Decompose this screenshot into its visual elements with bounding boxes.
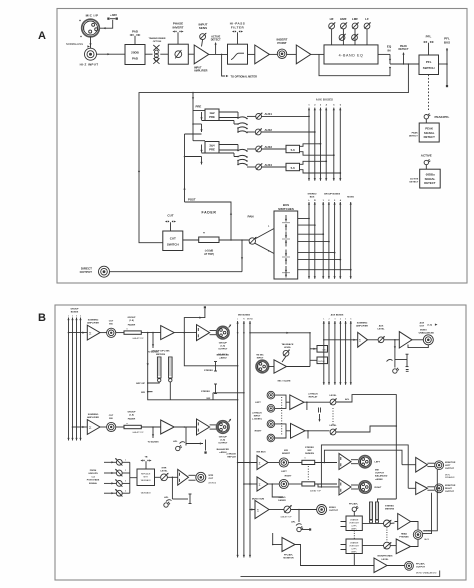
svg-text:AMPLIFIER: AMPLIFIER <box>87 322 99 325</box>
svg-text:AFL: AFL <box>164 496 169 499</box>
svg-text:AMPLIFIER: AMPLIFIER <box>87 416 99 419</box>
monitor pot 4 <box>104 492 116 494</box>
svg-text:GROUP O/P | MIX: GROUP O/P | MIX <box>151 351 170 353</box>
4-band EQ box <box>324 45 378 64</box>
svg-text:FADER: FADER <box>278 499 286 502</box>
headphone level pots <box>362 522 383 524</box>
svg-text:LEFT: LEFT <box>445 465 451 467</box>
svg-text:(1-6): (1-6) <box>428 325 433 327</box>
mono row <box>249 509 251 511</box>
svg-text:(MONO): (MONO) <box>209 483 217 485</box>
peak/pfl LED <box>424 114 430 119</box>
svg-text:OSC: OSC <box>322 349 327 351</box>
svg-text:TALKBACK: TALKBACK <box>141 492 152 495</box>
B: TB mic / oscillator <box>250 332 310 334</box>
5-6 box a <box>286 145 300 152</box>
svg-text:Σ: Σ <box>259 483 261 487</box>
to optional meter <box>222 54 225 76</box>
mtr out jack <box>196 472 206 482</box>
svg-text:MIC / SLATE: MIC / SLATE <box>278 379 291 382</box>
svg-text:1K/10K: 1K/10K <box>318 361 325 363</box>
svg-text:INVERT: INVERT <box>172 25 183 29</box>
L/R to mono link <box>271 483 273 485</box>
pre/post switches 1&2 <box>201 112 203 132</box>
svg-text:AUX BUSES: AUX BUSES <box>331 314 344 317</box>
svg-text:TRANSFORMER: TRANSFORMER <box>148 37 165 40</box>
svg-text:FADERS: FADERS <box>305 452 314 455</box>
5-6 box b <box>286 163 300 170</box>
svg-text:2-TRACK: 2-TRACK <box>226 452 236 455</box>
svg-text:NORMALLING: NORMALLING <box>66 42 83 46</box>
svg-text:MIX: MIX <box>375 470 379 472</box>
svg-text:AT TOP): AT TOP) <box>204 253 214 256</box>
aux output jack <box>423 335 433 345</box>
svg-text:DETECT: DETECT <box>424 135 435 139</box>
svg-text:SW.: SW. <box>109 418 113 420</box>
svg-text:SENS: SENS <box>199 26 207 30</box>
svg-text:MON/PHONES: MON/PHONES <box>378 556 393 558</box>
B: 2-track / monitor select area <box>330 398 337 405</box>
mic XLR connector <box>79 19 99 37</box>
svg-text:GROUP BUSES: GROUP BUSES <box>324 194 341 196</box>
svg-text:INSERT: INSERT <box>282 453 291 455</box>
svg-text:DETECT: DETECT <box>409 136 418 138</box>
svg-text:∞: ∞ <box>203 231 205 235</box>
hi-pass filter box <box>228 44 248 64</box>
headphone amps <box>398 514 411 530</box>
svg-text:+48V: +48V <box>110 13 117 17</box>
svg-text:AMPL: AMPL <box>351 527 357 530</box>
group XLR 1 <box>217 326 230 339</box>
summing amp 1 <box>87 325 100 340</box>
svg-text:OUT: OUT <box>420 326 425 328</box>
input amplifier <box>194 45 209 64</box>
svg-text:LEFT: LEFT <box>255 402 261 404</box>
peak signal detect box <box>419 123 439 142</box>
svg-text:MONITOR: MONITOR <box>445 462 456 464</box>
svg-text:BUS: BUS <box>310 197 315 199</box>
svg-text:RIGHT: RIGHT <box>375 487 382 489</box>
mono AFL <box>298 509 300 511</box>
svg-text:Σ: Σ <box>359 339 361 343</box>
EQ pots row2 <box>339 34 346 41</box>
svg-text:(1-8): (1-8) <box>129 414 134 416</box>
svg-text:5-6: 5-6 <box>291 148 295 152</box>
aux AFL cluster <box>394 340 396 368</box>
svg-text:LEFT: LEFT <box>281 471 287 473</box>
svg-text:0dB AT TOP: 0dB AT TOP <box>310 489 322 492</box>
svg-text:2-TRACK: 2-TRACK <box>252 411 262 414</box>
svg-text:FADER: FADER <box>202 211 217 215</box>
svg-text:PAD: PAD <box>132 57 139 61</box>
monitor to phones loop <box>423 470 438 531</box>
svg-text:OUTPUT: OUTPUT <box>329 510 339 512</box>
svg-text:AFL: AFL <box>291 521 296 524</box>
svg-text:REPLACE: REPLACE <box>141 472 151 475</box>
svg-text:TO OPTIONAL METER: TO OPTIONAL METER <box>231 75 258 78</box>
svg-text:HF: HF <box>330 17 334 21</box>
svg-text:IN: IN <box>388 48 391 52</box>
svg-text:(1-8): (1-8) <box>220 440 225 442</box>
svg-text:OVER DET: OVER DET <box>349 545 360 547</box>
to auxes 1 <box>152 333 154 348</box>
svg-text:AUX: AUX <box>420 322 425 325</box>
svg-text:AFL: AFL <box>173 440 178 443</box>
svg-text:GROUP: GROUP <box>127 317 136 319</box>
svg-text:4-BAND EQ: 4-BAND EQ <box>339 53 364 57</box>
svg-text:AFL: AFL <box>345 398 350 401</box>
amplifier 2 <box>255 45 270 64</box>
svg-text:MIX: MIX <box>308 450 312 452</box>
svg-text:GROUPS: GROUPS <box>88 473 98 475</box>
output amp row1 (double) <box>197 325 210 341</box>
svg-text:OUTPUT: OUTPUT <box>218 443 228 445</box>
2tk select dashes <box>281 397 283 436</box>
svg-text:AUX BUSES: AUX BUSES <box>316 99 333 102</box>
svg-text:OUTPUT: OUTPUT <box>416 567 426 569</box>
monitor pot 1 <box>104 461 116 463</box>
wire amp to HPF with meter tap <box>209 53 228 55</box>
svg-text:STEREO: STEREO <box>201 391 210 393</box>
svg-text:AUX2: AUX2 <box>265 128 273 132</box>
svg-text:MTR: MTR <box>162 468 167 470</box>
svg-text:AUX4: AUX4 <box>265 163 273 167</box>
svg-text:A: A <box>38 30 46 42</box>
aux3 pot <box>256 145 263 152</box>
svg-text:MONO: MONO <box>347 197 354 199</box>
svg-text:OUTPUT: OUTPUT <box>445 491 455 493</box>
direct output <box>241 240 243 272</box>
svg-text:+4DBM: +4DBM <box>375 478 383 481</box>
svg-text:OUTPUT: OUTPUT <box>375 473 385 475</box>
panel A border <box>57 9 467 284</box>
svg-text:PFL: PFL <box>426 35 432 39</box>
svg-text:GRP O/P: GRP O/P <box>136 383 146 385</box>
svg-text:OUTPUT: OUTPUT <box>80 270 93 274</box>
monitor select risers <box>324 462 326 464</box>
svg-text:HMF: HMF <box>340 17 347 21</box>
svg-text:MONO: MONO <box>247 319 254 321</box>
pan split to bus switches <box>255 229 274 240</box>
svg-text:MONITOR: MONITOR <box>445 485 456 487</box>
svg-text:MIX: MIX <box>207 398 211 400</box>
svg-text:GROUP: GROUP <box>219 342 228 344</box>
svg-text:STEREO: STEREO <box>308 194 317 196</box>
svg-text:(1-8): (1-8) <box>220 345 225 347</box>
svg-text:SUMMING: SUMMING <box>88 414 99 416</box>
svg-text:TB MIC: TB MIC <box>256 354 264 356</box>
svg-text:SIGNAL: SIGNAL <box>89 482 98 485</box>
stereo routing feed row1 <box>184 309 205 333</box>
svg-text:UNBALANCED: UNBALANCED <box>419 331 435 334</box>
monitor pot 2 <box>104 472 116 474</box>
svg-text:CUT: CUT <box>109 415 114 417</box>
svg-text:SWITCH: SWITCH <box>167 242 179 246</box>
3&4 pre box <box>193 140 205 142</box>
replace/talkback box <box>137 469 155 486</box>
svg-text:(-10DBV): (-10DBV) <box>252 418 262 420</box>
mix sum R <box>243 483 245 485</box>
svg-text:HEAD: HEAD <box>401 533 408 536</box>
svg-text:MIX BUSES: MIX BUSES <box>238 315 251 317</box>
svg-text:LMF: LMF <box>352 17 358 21</box>
svg-text:PHONES: PHONES <box>399 537 409 539</box>
svg-text:PRE: PRE <box>209 115 215 119</box>
svg-text:PAN: PAN <box>247 215 253 219</box>
svg-text:OUTPUT: OUTPUT <box>218 348 228 350</box>
svg-text:PRE: PRE <box>209 147 215 151</box>
svg-text:SUMMING: SUMMING <box>88 320 99 322</box>
svg-text:AMPLIFIER: AMPLIFIER <box>356 325 368 328</box>
svg-text:LEVEL: LEVEL <box>381 559 389 561</box>
svg-text:POST-FADE: POST-FADE <box>87 479 100 482</box>
svg-text:MIX: MIX <box>284 450 288 452</box>
B: group row 2 <box>72 426 74 428</box>
aux4 pot <box>256 163 263 170</box>
wire pad to transformer <box>145 53 153 55</box>
svg-text:PFL/AFL: PFL/AFL <box>349 503 359 506</box>
svg-text:OUT: OUT <box>209 478 214 480</box>
svg-text:SWITCH: SWITCH <box>423 66 435 70</box>
svg-text:PRE: PRE <box>196 105 202 109</box>
svg-text:5-6: 5-6 <box>291 166 295 170</box>
svg-text:CHANGE: CHANGE <box>350 541 359 544</box>
svg-text:METERS: METERS <box>156 354 166 356</box>
svg-text:GROUP: GROUP <box>70 309 79 311</box>
svg-text:BUSES: BUSES <box>71 312 79 314</box>
svg-text:RIGHT: RIGHT <box>285 475 292 477</box>
svg-text:MIC I/P: MIC I/P <box>86 14 99 18</box>
svg-text:TO AUXES: TO AUXES <box>147 441 159 444</box>
B: aux master row <box>323 339 325 341</box>
1&2 pre box <box>193 110 205 112</box>
wire +48V to XLR <box>100 20 113 28</box>
svg-text:BALANCED: BALANCED <box>375 475 388 478</box>
stereo labeled feeds to mix bus <box>184 333 237 366</box>
svg-text:MONO SUM: MONO SUM <box>252 498 264 500</box>
svg-text:TALKBACK: TALKBACK <box>141 479 152 482</box>
svg-text:MONO: MONO <box>329 507 336 509</box>
svg-text:TB: TB <box>145 457 148 459</box>
svg-text:AUX3: AUX3 <box>265 145 273 149</box>
B: mix master outputs <box>339 454 351 470</box>
svg-text:MONO: MONO <box>279 497 286 499</box>
svg-text:SWITCHES: SWITCHES <box>278 207 294 211</box>
2tk amp outputs to level pots <box>304 401 330 403</box>
amplifier 3 <box>296 45 311 64</box>
wire to EQ + bypass loop <box>311 53 324 55</box>
svg-text:PFL: PFL <box>426 60 432 64</box>
phones jack <box>413 530 422 539</box>
svg-text:PFL/AFL: PFL/AFL <box>284 553 294 556</box>
svg-text:& PFL: & PFL <box>351 525 357 527</box>
TB distribution line <box>241 571 440 577</box>
PFL output jack <box>405 561 414 570</box>
svg-text:GROUP: GROUP <box>127 411 136 413</box>
20dB pad box <box>125 45 145 65</box>
svg-text:OVER DET: OVER DET <box>349 522 360 524</box>
wire jack to pad <box>97 53 126 55</box>
svg-text:2-TRACK: 2-TRACK <box>308 393 318 396</box>
svg-text:INPUT: INPUT <box>254 415 261 417</box>
aux1 pot <box>256 113 263 120</box>
phase invert box <box>168 44 188 64</box>
mix sum L <box>237 462 239 464</box>
svg-text:20DB: 20DB <box>131 51 140 55</box>
svg-text:B: B <box>38 312 46 324</box>
post line <box>185 202 232 240</box>
svg-text:LEVEL: LEVEL <box>160 471 168 473</box>
hi-z input jack <box>85 48 97 60</box>
post vertical <box>184 134 186 202</box>
2tk to mix switches <box>307 402 308 438</box>
svg-text:REPLAY: REPLAY <box>227 455 236 458</box>
stereo meter bars <box>369 502 372 523</box>
B: PFL/AFL monitor bottom <box>282 538 295 552</box>
svg-text:POINT: POINT <box>277 41 286 45</box>
svg-text:RIGHT: RIGHT <box>445 488 452 490</box>
svg-text:STEREO: STEREO <box>424 531 433 533</box>
svg-text:STEREO: STEREO <box>385 506 394 508</box>
group XLR 2 <box>217 421 230 434</box>
svg-text:ACTIVE: ACTIVE <box>421 154 432 158</box>
svg-text:LEVEL: LEVEL <box>377 329 385 331</box>
svg-text:CUT: CUT <box>109 321 114 323</box>
monitor pot 3 <box>104 482 116 484</box>
svg-text:FROM: FROM <box>90 470 97 472</box>
svg-text:HI-Z INPUT: HI-Z INPUT <box>80 63 99 67</box>
bus switch output lines <box>298 219 351 270</box>
dashed line PFL switch to LED <box>428 75 430 111</box>
svg-text:MTR: MTR <box>144 477 149 479</box>
svg-text:BALANCED: BALANCED <box>217 448 230 451</box>
svg-text:DETECT: DETECT <box>399 48 409 51</box>
svg-text:0dB AT TOP: 0dB AT TOP <box>133 337 145 340</box>
svg-text:RIGHT: RIGHT <box>255 431 262 433</box>
svg-text:MONITOR: MONITOR <box>283 558 294 560</box>
svg-text:CUT: CUT <box>170 236 176 240</box>
svg-text:LEVEL: LEVEL <box>329 395 337 397</box>
svg-text:LF: LF <box>365 17 369 21</box>
svg-text:MTR: MTR <box>209 475 214 477</box>
svg-text:GROUP: GROUP <box>219 437 228 439</box>
svg-text:LEFT: LEFT <box>375 462 381 464</box>
2tk amps <box>290 395 304 410</box>
svg-text:DETECT: DETECT <box>211 39 221 42</box>
collector <box>130 462 137 493</box>
svg-text:STEREO: STEREO <box>204 370 213 372</box>
svg-text:MONO UNBALANCED: MONO UNBALANCED <box>416 572 437 575</box>
svg-text:STEREO: STEREO <box>305 447 314 449</box>
aux1 switch cluster + wiring <box>202 112 248 125</box>
AFL cluster row2 <box>185 427 187 446</box>
svg-text:AUX: AUX <box>379 325 384 328</box>
aux3 switch cluster <box>202 145 248 166</box>
svg-text:Σ: Σ <box>257 509 259 513</box>
svg-text:& PFL: & PFL <box>351 548 357 550</box>
wire XLR down to hi-z jack <box>90 37 92 48</box>
svg-text:SW.: SW. <box>109 324 113 326</box>
svg-text:CUT: CUT <box>167 214 173 218</box>
svg-text:FADER: FADER <box>128 323 136 326</box>
svg-text:BUS: BUS <box>444 40 450 44</box>
svg-text:AUX1: AUX1 <box>265 112 273 116</box>
svg-text:0dB AT TOP: 0dB AT TOP <box>133 431 145 434</box>
svg-text:REPLAY: REPLAY <box>309 396 318 399</box>
panel B border <box>55 305 466 580</box>
svg-text:MIX: MIX <box>141 392 145 394</box>
svg-text:Σ: Σ <box>259 461 261 465</box>
svg-text:MIX BUS: MIX BUS <box>256 451 266 453</box>
svg-text:OPTION: OPTION <box>153 41 162 43</box>
aux1 to bus1 <box>262 115 310 117</box>
svg-text:DETECT: DETECT <box>409 182 418 184</box>
pre tap <box>192 92 194 94</box>
aux2 pot <box>255 128 262 135</box>
svg-text:MONO: MONO <box>420 330 427 332</box>
aux2 switch wiring <box>238 127 247 133</box>
svg-text:POST: POST <box>188 198 196 202</box>
svg-text:(1-8): (1-8) <box>129 320 134 322</box>
svg-text:OUTPUT: OUTPUT <box>445 468 455 470</box>
svg-text:DETECT: DETECT <box>424 181 435 185</box>
mtr output amp (double) <box>178 469 189 485</box>
svg-text:PFL/AFL: PFL/AFL <box>416 562 426 565</box>
2tk jacks <box>267 391 275 399</box>
svg-text:METERS: METERS <box>385 509 395 511</box>
svg-text:JACK: JACK <box>424 538 430 541</box>
svg-text:PAD: PAD <box>132 30 139 34</box>
svg-text:+4DBU: +4DBU <box>219 357 227 360</box>
svg-text:AMPLIFIER: AMPLIFIER <box>194 70 208 73</box>
svg-text:BALANCE: BALANCE <box>218 353 228 356</box>
meter feed wiring <box>148 333 238 400</box>
B: group row 1 <box>68 332 70 334</box>
PFL output amp <box>374 558 387 573</box>
svg-text:PEAK: PEAK <box>412 132 418 135</box>
B: monitor amps and outputs <box>402 464 416 466</box>
svg-text:AMPL: AMPL <box>351 550 357 553</box>
svg-text:LEVEL: LEVEL <box>284 347 292 349</box>
main feed down and left to cut switch <box>139 64 408 243</box>
svg-text:LEVEL: LEVEL <box>329 425 337 427</box>
svg-text:SUMMING: SUMMING <box>357 323 368 325</box>
svg-text:MON.: MON. <box>445 474 451 476</box>
jack merge wires <box>275 395 290 408</box>
svg-text:FILTER: FILTER <box>231 25 245 29</box>
svg-text:CHANGE: CHANGE <box>350 518 359 521</box>
EQ out line to PFL <box>390 63 419 65</box>
svg-text:PEAK/PFL: PEAK/PFL <box>435 115 450 119</box>
amp row1 <box>161 326 175 340</box>
svg-text:INPUT: INPUT <box>257 357 264 359</box>
svg-text:0dB AT TOP: 0dB AT TOP <box>281 516 293 519</box>
svg-text:ACTIVE: ACTIVE <box>410 178 419 181</box>
svg-text:TALKBACK: TALKBACK <box>282 343 294 346</box>
svg-text:FADER: FADER <box>128 418 136 421</box>
oscillator boxes <box>317 346 328 353</box>
svg-text:SPEAKER: SPEAKER <box>445 476 455 479</box>
AFL cluster mtr <box>172 477 174 479</box>
